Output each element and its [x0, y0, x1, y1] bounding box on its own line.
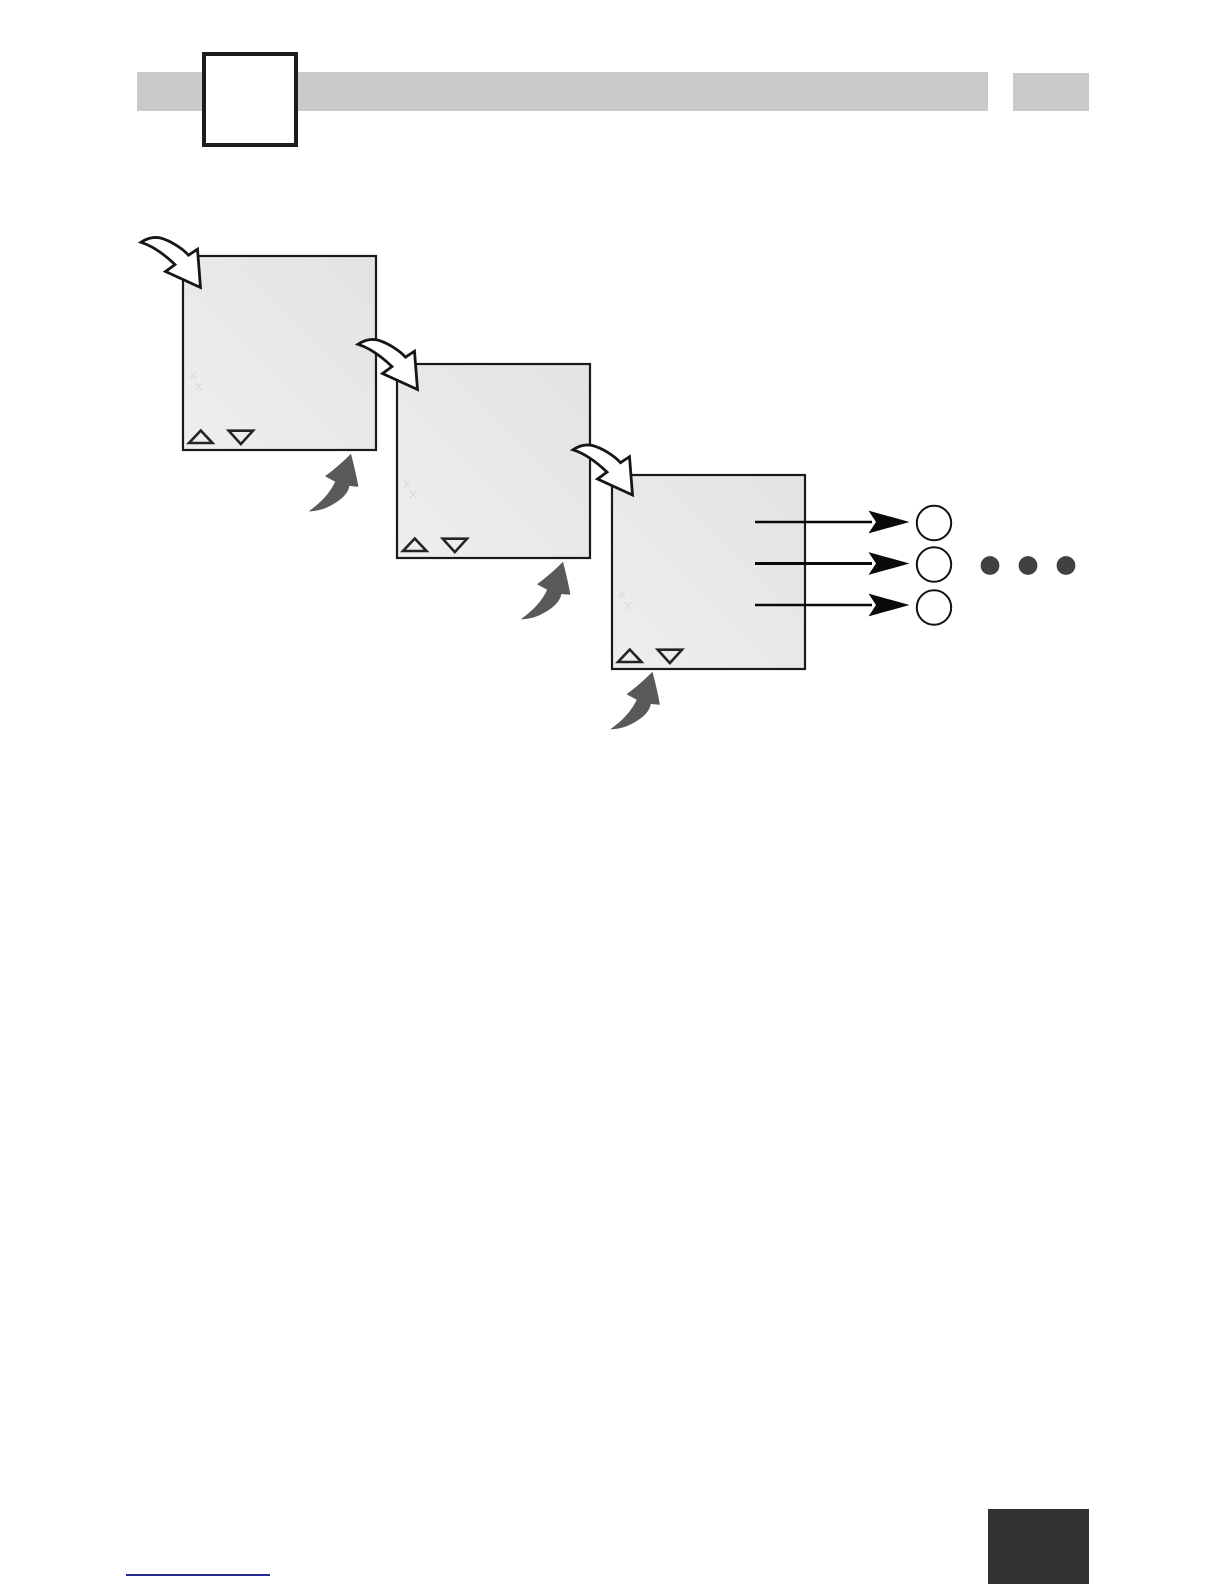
- ellipsis dot 2: [1019, 556, 1038, 575]
- white arrow into panel 3: [573, 445, 633, 495]
- output arrow 1: [755, 511, 910, 534]
- white arrow into panel 1: [141, 238, 201, 288]
- footer navy rule: [126, 1574, 270, 1576]
- screen panel 1: [183, 256, 376, 450]
- screen panel 3: [612, 475, 805, 669]
- gray arrow under panel 2: [521, 562, 571, 620]
- gray arrow under panel 3: [610, 672, 660, 730]
- output arrow 3: [755, 594, 910, 617]
- screen panel 2: [397, 364, 590, 558]
- header gray bar: [137, 72, 988, 111]
- option circle 2: [917, 547, 951, 581]
- footer page-number block: [988, 1509, 1089, 1584]
- output arrow 2: [755, 552, 910, 575]
- white arrow into panel 2: [358, 340, 418, 390]
- header chapter number box: [202, 52, 298, 147]
- header right gray box: [1013, 73, 1089, 111]
- ellipsis dot 1: [981, 556, 1000, 575]
- ellipsis dot 3: [1057, 556, 1076, 575]
- option circle 1: [917, 506, 951, 540]
- option circle 3: [917, 590, 951, 624]
- gray arrow under panel 1: [309, 454, 359, 512]
